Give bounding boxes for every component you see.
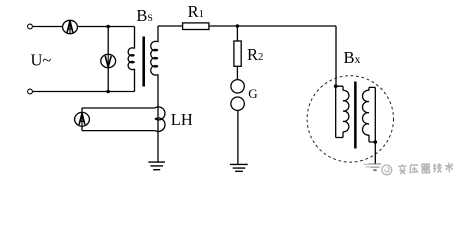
node junction Bx output (374, 140, 378, 144)
术 (445, 163, 454, 173)
ammeter A top (63, 20, 78, 33)
inductor LH coil bumps (155, 107, 165, 132)
器 (421, 164, 430, 173)
inductor LH loop bottom wire (82, 130, 155, 132)
inductor LH loop left edge (81, 108, 83, 131)
svg-text:Bx: Bx (344, 48, 361, 67)
wire Bx to ground (374, 142, 376, 164)
wire voltmeter branch (107, 27, 109, 92)
压 (410, 165, 419, 174)
svg-text:G: G (248, 86, 257, 101)
transformer Bx core (354, 82, 357, 149)
wire bottom rail (32, 91, 134, 93)
ground under G (230, 164, 248, 171)
node junction R2 branch (236, 24, 240, 28)
resistor R2 (234, 41, 241, 66)
svg-text:R1: R1 (188, 2, 204, 21)
transformer Bs core (142, 37, 145, 87)
wire top-right rail (158, 26, 336, 86)
wire Bs secondary to ground (157, 108, 159, 162)
transformer Bx primary coil (343, 90, 349, 131)
jack terminal lower of G (231, 97, 244, 110)
jack terminal upper of G (231, 80, 244, 93)
svg-text:R2: R2 (247, 45, 263, 64)
svg-text:LH: LH (171, 110, 193, 129)
变 (398, 164, 407, 174)
transformer Bs primary coil (128, 27, 134, 92)
wire G to ground (237, 110, 239, 164)
wire R2 branch (236, 26, 238, 41)
ground under Bs secondary (148, 162, 165, 170)
inductor LH loop top wire (82, 107, 155, 109)
node junction bottom rail (106, 90, 110, 94)
watermark text 变压器技术 (398, 163, 453, 175)
node junction top rail (106, 25, 110, 29)
terminal bottom-left (28, 89, 33, 94)
watermark swoosh (364, 164, 382, 167)
terminal top-left (28, 24, 33, 29)
wire R2 to jack (236, 66, 238, 79)
svg-text:BS: BS (136, 6, 152, 25)
ammeter A in LH loop (75, 112, 90, 126)
node junction Bx input (334, 84, 338, 88)
transformer Bx secondary coil (363, 90, 369, 135)
wire Bx left leads (336, 86, 343, 137)
wire top rail (32, 26, 134, 28)
ground under Bx (368, 164, 381, 170)
wire Bx right leads (369, 87, 375, 142)
voltmeter V (101, 54, 116, 67)
技 (433, 163, 442, 173)
watermark logo (382, 165, 392, 175)
resistor R1 (183, 23, 209, 30)
transformer Bs secondary coil (151, 26, 158, 108)
dashed circle around Bx (307, 76, 393, 162)
svg-text:U~: U~ (31, 51, 52, 70)
